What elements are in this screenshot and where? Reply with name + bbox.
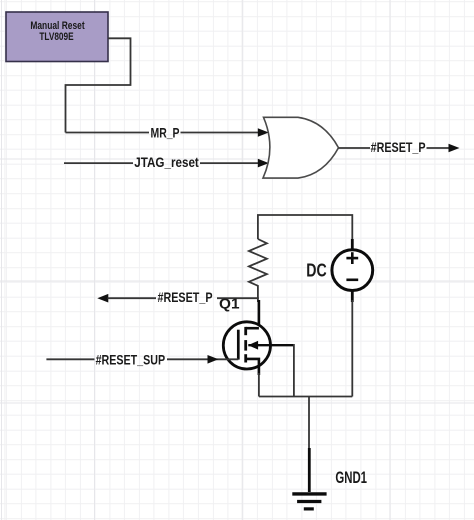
IC Manual Reset TLV809E xyxy=(6,12,108,62)
minus sign xyxy=(346,278,358,281)
wire body tie down to bottom rail xyxy=(293,344,295,397)
svg-text:MR_P: MR_P xyxy=(151,125,180,141)
wire from TLV809E output to MR_P line xyxy=(66,38,131,132)
wire resistor bottom to MOSFET drain xyxy=(257,291,259,302)
resistor xyxy=(249,239,267,291)
svg-text:#RESET_P: #RESET_P xyxy=(158,289,213,305)
transistor Q1 (N-MOSFET) xyxy=(219,296,294,375)
or-gate xyxy=(263,117,339,178)
channel segments xyxy=(244,327,247,335)
wire DC source bottom to rail xyxy=(351,300,353,397)
ground GND1 xyxy=(292,448,367,509)
body arrow line xyxy=(248,344,294,346)
wire source to bottom rail xyxy=(258,373,260,397)
node MR_P xyxy=(66,125,269,141)
svg-text:TLV809E: TLV809E xyxy=(39,31,73,43)
svg-text:DC: DC xyxy=(306,261,326,281)
svg-text:JTAG_reset: JTAG_reset xyxy=(134,154,199,170)
svg-text:#RESET_P: #RESET_P xyxy=(371,139,426,155)
wire top rail (resistor to DC source) xyxy=(258,215,352,240)
wire bottom rail xyxy=(259,396,352,398)
dc source DC xyxy=(306,239,372,302)
svg-text:Q1: Q1 xyxy=(219,296,240,312)
node #RESET_P (drain tap, arrow to left) xyxy=(97,289,258,305)
source connection xyxy=(246,359,259,375)
gate bar xyxy=(237,330,240,360)
node #RESET_P (or-gate output) xyxy=(339,139,460,155)
node #RESET_SUP (gate drive) xyxy=(46,351,238,367)
wire bottom rail to ground xyxy=(308,397,310,451)
svg-text:#RESET_SUP: #RESET_SUP xyxy=(96,351,166,367)
node JTAG_reset xyxy=(64,154,269,170)
plus sign xyxy=(346,257,358,260)
svg-text:GND1: GND1 xyxy=(335,469,367,487)
drain connection xyxy=(246,327,259,330)
